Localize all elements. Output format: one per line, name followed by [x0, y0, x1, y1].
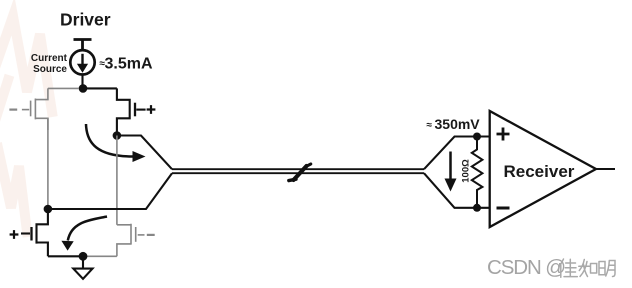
- node D: ground node: [79, 252, 88, 261]
- svg-text:≈: ≈: [427, 120, 433, 131]
- label − (U1 input): [497, 207, 510, 210]
- transistor M2 (top-right, on): [117, 88, 146, 135]
- wire: bottom rail (black, M3 source to ground node): [48, 255, 83, 257]
- transmission line: lower conductor: [172, 172, 424, 174]
- supply terminal T-bar: [74, 40, 92, 51]
- node A: current source output on top rail: [79, 84, 88, 93]
- transmission line: upper conductor: [172, 168, 424, 170]
- svg-text:Source: Source: [33, 64, 67, 75]
- transistor M4 (bottom-right, off, grey): [117, 224, 145, 257]
- wire: M4 drain up to node B (grey): [116, 136, 118, 225]
- differential pair slash: [289, 164, 311, 181]
- current source I1: [70, 50, 94, 88]
- node C: M3 drain / line minus: [44, 205, 53, 214]
- transistor M3 (bottom-left, on): [21, 209, 48, 256]
- svg-text:Driver: Driver: [60, 10, 111, 30]
- label − (M4 gate): [147, 234, 155, 236]
- current arrow through RT: [449, 152, 452, 183]
- svg-text:CSDN @: CSDN @: [487, 256, 565, 279]
- current flow arrow (top, through M2): [86, 124, 133, 157]
- svg-text:Receiver: Receiver: [504, 162, 575, 181]
- wire: bottom rail right (grey, M4 source): [83, 255, 117, 257]
- label + (U1 input): [497, 128, 510, 141]
- label − (M1 gate): [9, 108, 17, 110]
- wire: U1 output: [596, 168, 615, 170]
- wire: node B to transmission line (upper feed): [117, 136, 172, 170]
- node B: M2 source / line plus: [113, 131, 122, 140]
- label + (M2 gate): [147, 105, 156, 114]
- node F: resistor bottom: [473, 204, 481, 212]
- node E: resistor top: [473, 133, 481, 141]
- wire: line plus to resistor top / receiver + input: [424, 137, 490, 170]
- svg-text:Current: Current: [31, 53, 68, 64]
- transistor M1 (top-left, off, grey): [22, 88, 48, 130]
- decorative background watermark (no label): [0, 16, 52, 232]
- wire: line minus to resistor bottom / receiver − input: [424, 173, 490, 208]
- resistor RT 100 ohm: [472, 137, 483, 208]
- svg-text:350mV: 350mV: [435, 116, 481, 132]
- label + (M3 gate): [10, 230, 19, 239]
- wire: M1 drain down to node C (grey): [47, 118, 49, 209]
- ground: [73, 256, 92, 279]
- current flow arrow (bottom, through M3): [68, 217, 107, 241]
- wire: top rail left (grey): [48, 87, 79, 89]
- svg-text:100Ω: 100Ω: [461, 159, 472, 183]
- op-amp U1 receiver triangle: [490, 111, 596, 227]
- wire: node C to transmission line (lower feed): [48, 173, 172, 209]
- svg-text:3.5mA: 3.5mA: [105, 56, 153, 73]
- wire: top rail right: [83, 87, 117, 89]
